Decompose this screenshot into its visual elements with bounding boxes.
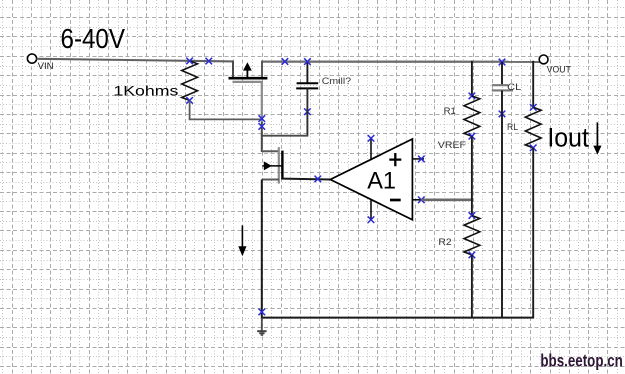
op-amp A1 plus input pin: [412, 158, 424, 160]
junction X at R1 bottom: [469, 133, 476, 140]
svg-text:Iout: Iout: [547, 122, 589, 152]
wire top wire down to CL: [501, 62, 503, 85]
port VIN terminal circle: [27, 54, 36, 63]
wire R2 bottom to ground bus: [471, 255, 473, 319]
wire M2 to op-amp output: [282, 178, 330, 181]
junction X at R1 top: [469, 93, 476, 100]
junction X at minus input: [418, 197, 425, 204]
label CL: [507, 82, 521, 92]
op-amp A1 bottom power pin: [370, 199, 372, 219]
junction X below CL: [499, 111, 506, 118]
wire CL bottom to ground bus: [501, 91, 503, 319]
label A1: [367, 167, 396, 194]
wire top wire down to RL: [532, 61, 534, 108]
svg-text:bbs.eetop.cn: bbs.eetop.cn: [540, 351, 622, 371]
svg-text:VOUT: VOUT: [547, 65, 572, 75]
junction X at plus input: [418, 156, 425, 163]
svg-text:R1: R1: [444, 106, 456, 116]
resistor RL: [525, 107, 541, 148]
op-amp A1 top power pin: [370, 138, 372, 160]
junction X gate node lower: [259, 123, 266, 130]
arrow current direction down (left annotation): [238, 225, 246, 256]
capacitor Cmill? plates: [296, 83, 318, 88]
wire minus input to R1 R2 junction: [421, 199, 473, 202]
junction X at Cmill top: [304, 58, 311, 65]
port VOUT terminal circle: [539, 55, 548, 64]
junction X gate node upper: [259, 115, 266, 122]
op-amp A1 minus input pin: [412, 199, 424, 201]
label R2: [438, 237, 451, 247]
label VREF net: [438, 140, 467, 150]
label bbs.eetop.cn watermark: [540, 351, 622, 371]
junction X at CL top on output wire: [499, 59, 506, 66]
junction X on op-amp output wire: [315, 176, 322, 183]
wire RL bottom to ground bus: [532, 148, 534, 319]
svg-text:6-40V: 6-40V: [61, 23, 126, 54]
wire top wire to Cmill top plate: [306, 61, 308, 84]
wire gate node down to M2 drain stub: [262, 150, 279, 152]
label 6-40V input voltage annotation: [61, 23, 126, 54]
op-amp minus symbol: [390, 199, 401, 202]
junction X at 1Kohms top: [186, 58, 193, 65]
svg-text:VREF: VREF: [438, 140, 467, 150]
op-amp A1 triangle: [330, 139, 412, 220]
label VOUT: [547, 65, 572, 75]
arrow Iout direction down: [593, 122, 601, 154]
svg-text:RL: RL: [507, 122, 518, 132]
label 1Kohms value: [113, 82, 178, 98]
wire gate of M1 down to gate node: [261, 82, 263, 152]
junction X at op-amp bottom pin: [368, 216, 375, 223]
transistor M2 arrow pointing right: [263, 161, 282, 170]
wire pass transistor left terminal drop: [232, 60, 234, 77]
svg-text:A1: A1: [367, 167, 396, 194]
wire R1 bottom to R2 top: [471, 136, 473, 215]
svg-text:Cmill?: Cmill?: [322, 76, 351, 87]
wire pass transistor right terminal drop: [261, 61, 263, 78]
junction X at R2 top: [469, 212, 476, 219]
transistor M1 pass FET channel bar: [229, 77, 268, 80]
junction X at RL top: [530, 104, 537, 111]
op-amp plus symbol: [389, 153, 401, 166]
transistor M1 body arrow pointing up: [243, 62, 252, 78]
wire ground bus bottom: [262, 317, 533, 319]
junction X at 1Kohms bottom: [186, 97, 193, 104]
transistor M2 gate bar: [278, 147, 280, 183]
wire M2 source stub: [262, 179, 279, 181]
label Cmill?: [322, 76, 351, 87]
capacitor CL plates: [492, 85, 513, 90]
resistor R1: [464, 96, 480, 136]
label Iout output current annotation: [547, 122, 589, 152]
junction X on top wire right of 1Kohms: [206, 58, 213, 65]
svg-text:CL: CL: [507, 82, 521, 92]
wire 1Kohms bottom to gate node: [189, 100, 262, 119]
junction X at RL bottom: [530, 145, 537, 152]
wire M2 source down to ground bus: [261, 180, 263, 319]
wire VIN to pass transistor drain: [37, 59, 233, 62]
junction X below Cmill: [304, 108, 311, 115]
wire top wire down to R1: [471, 61, 473, 96]
junction X at ground node: [259, 309, 266, 316]
label R1: [444, 106, 456, 116]
svg-text:R2: R2: [438, 237, 451, 247]
svg-text:1Kohms: 1Kohms: [113, 82, 178, 98]
junction X at R2 bottom: [469, 252, 476, 259]
junction X on top wire left of Cmill: [282, 58, 289, 65]
transistor M2 channel bar: [281, 151, 283, 180]
svg-text:VIN: VIN: [38, 61, 54, 71]
transistor M1 gate bar: [233, 81, 263, 83]
junction X at op-amp top pin: [368, 135, 375, 142]
wire pass transistor to VOUT: [262, 60, 540, 63]
resistor 1Kohms: [182, 61, 198, 101]
label VIN: [38, 61, 54, 71]
resistor R2: [464, 216, 480, 255]
wire Cmill bottom to gate node: [261, 88, 308, 135]
ground symbol: [257, 318, 266, 335]
label RL: [507, 122, 518, 132]
